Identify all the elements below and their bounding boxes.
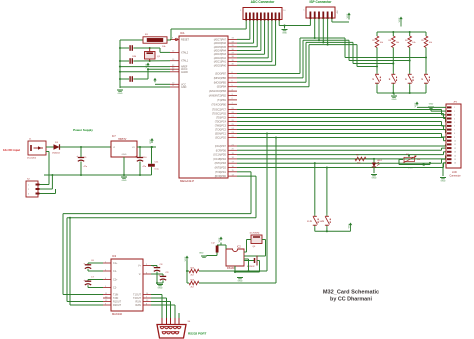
svg-text:IC7: IC7: [112, 135, 116, 138]
capacitor C6 1u: [83, 260, 103, 271]
connector X2 aux power 3-pin: [26, 178, 40, 197]
svg-text:2k2: 2k2: [191, 287, 195, 289]
svg-text:V+: V+: [138, 265, 142, 268]
svg-text:(T0/XCK)PB0: (T0/XCK)PB0: [212, 103, 227, 106]
wire INT buttons to VCC: [315, 228, 351, 232]
svg-text:JP2: JP2: [453, 102, 458, 104]
wire VCC stem to pull-ups: [186, 261, 188, 284]
svg-text:7805TV: 7805TV: [118, 138, 127, 141]
svg-text:C11: C11: [155, 162, 160, 164]
wire IC2 VCC pin: [221, 245, 226, 249]
power VCC arrow above button rail: [399, 17, 403, 27]
wire ISP pin6 to VCC: [332, 19, 349, 23]
resistor R16 2k2: [189, 279, 199, 288]
capacitor C5 47u input: [76, 147, 88, 175]
svg-text:VCC: VCC: [348, 223, 350, 228]
ground at LCD pin2: [428, 104, 434, 109]
label ADC Connector: [251, 0, 275, 4]
svg-text:C8: C8: [160, 264, 164, 266]
svg-text:LED1: LED1: [377, 160, 383, 162]
svg-text:C1-: C1-: [113, 270, 117, 273]
wire J1 sleeve down: [46, 151, 49, 153]
power VCC arrow at LCD pin1: [415, 102, 419, 108]
svg-text:12: 12: [454, 148, 456, 150]
wire battery to GND: [234, 266, 260, 273]
svg-text:(AIN0/INT2)PB2: (AIN0/INT2)PB2: [209, 95, 227, 98]
wire Q4 right to IC2: [244, 240, 266, 257]
svg-text:1: 1: [303, 10, 305, 12]
transistor-style tact switches S1-S4: [372, 72, 429, 87]
wire button VCC rail: [377, 31, 426, 33]
wire R2IN to DB9: [151, 305, 175, 318]
svg-text:IC3: IC3: [112, 254, 117, 258]
wire C8/C9 to GND: [156, 282, 163, 284]
wire D3 to IC7 input: [60, 146, 112, 148]
capacitor C9 1u at V-: [151, 272, 169, 283]
svg-text:ADC Connector: ADC Connector: [251, 0, 275, 4]
svg-text:(ADC7)PA7: (ADC7)PA7: [214, 38, 227, 41]
svg-text:(TCK)PC2: (TCK)PC2: [215, 129, 227, 132]
label Power Supply: [73, 128, 93, 132]
ground below LED1: [371, 175, 377, 180]
svg-text:GND: GND: [372, 178, 377, 180]
capacitor C2 (XTAL1): [120, 58, 170, 64]
svg-text:(MISO)PB6: (MISO)PB6: [214, 77, 227, 80]
svg-text:VCC: VCC: [219, 237, 221, 242]
svg-text:10: 10: [283, 10, 286, 12]
svg-text:C2-: C2-: [113, 287, 117, 290]
tact switch S6: [320, 214, 331, 229]
svg-text:AGND: AGND: [181, 71, 188, 74]
svg-text:(TDI)PC5: (TDI)PC5: [216, 117, 227, 120]
wire RXD PD0 loop to R1OUT: [67, 176, 256, 301]
ground left of C12: [199, 253, 207, 258]
svg-text:IC1: IC1: [180, 31, 185, 35]
svg-text:E: E: [310, 220, 312, 223]
svg-text:47u: 47u: [143, 166, 147, 168]
wire R1 to RESET pin: [167, 39, 171, 41]
ground below regulator: [121, 177, 127, 182]
svg-text:DCJ0202: DCJ0202: [27, 157, 37, 159]
svg-text:(TOSC1)PC6: (TOSC1)PC6: [212, 113, 227, 116]
wire X2 pin3 stub: [40, 189, 56, 194]
label 12v DC input: [3, 148, 20, 152]
svg-text:1: 1: [454, 107, 455, 109]
capacitor C11 100n output: [148, 147, 160, 175]
wire Q4 left to IC2: [244, 240, 251, 253]
svg-text:R2IN: R2IN: [136, 304, 142, 307]
svg-text:0.1u: 0.1u: [155, 169, 160, 171]
svg-text:R4: R4: [405, 40, 408, 42]
wire VCC pin: [155, 83, 170, 85]
svg-text:32.768kHz: 32.768kHz: [250, 233, 260, 235]
svg-text:(T1)PB1: (T1)PB1: [217, 99, 227, 102]
wire ADC pin10 to GND: [279, 21, 285, 29]
svg-text:D3: D3: [55, 142, 59, 144]
svg-text:GND: GND: [122, 180, 127, 182]
wire R15 to pullups junction: [187, 270, 189, 272]
wire pull-ups to switches: [377, 48, 426, 72]
svg-text:C1+: C1+: [113, 262, 118, 265]
capacitor C1 (XTAL2): [120, 45, 160, 51]
connector JP2 LCD 16-pin: [446, 102, 461, 178]
wire GND pin to rail: [120, 87, 170, 88]
wire IC2 SCL stub: [251, 282, 253, 284]
svg-text:10k: 10k: [412, 42, 415, 44]
svg-text:Q4: Q4: [253, 246, 257, 248]
resistor R15 2k2: [189, 267, 199, 276]
svg-text:GND: GND: [181, 86, 187, 89]
svg-text:C7: C7: [91, 277, 95, 279]
svg-text:(ADC4)PA4: (ADC4)PA4: [214, 50, 227, 53]
resistor R1 10k reset pull-up: [143, 34, 167, 48]
wire R2OUT spur: [69, 217, 103, 305]
wire power GND rail: [44, 157, 152, 176]
svg-text:13: 13: [454, 152, 456, 154]
svg-text:16: 16: [454, 163, 456, 165]
battery G1 BR2032 backup: [244, 256, 260, 273]
wire R16 to pullups junction: [187, 282, 189, 284]
svg-text:(SS)PB4: (SS)PB4: [217, 86, 227, 89]
connector SV1 ADC 10-pin header: [240, 8, 286, 21]
resistor R7 trimmer (LCD contrast): [403, 154, 420, 163]
svg-text:X4: X4: [188, 321, 191, 323]
svg-text:(ADC5)PA5: (ADC5)PA5: [214, 46, 227, 49]
ground below buttons: [391, 96, 397, 101]
wire AGND to rail: [119, 71, 170, 73]
svg-text:10: 10: [454, 141, 456, 143]
ground below DS1307: [237, 278, 243, 283]
svg-text:(SDA)PC1: (SDA)PC1: [215, 133, 227, 136]
wire INT0 drop from PD2: [326, 166, 328, 213]
svg-text:VCC: VCC: [408, 168, 413, 170]
svg-text:C12: C12: [211, 243, 216, 245]
power VCC arrow at AVCC: [146, 63, 150, 69]
svg-text:10k: 10k: [162, 46, 166, 48]
label ISP Connector: [310, 0, 333, 4]
wire R6 to LED: [366, 158, 375, 160]
power VCC arrow at I2C pull-ups: [185, 256, 189, 262]
svg-text:LCD: LCD: [452, 171, 457, 174]
svg-text:C6: C6: [91, 260, 95, 262]
svg-text:E: E: [372, 78, 374, 81]
op-amp IC3 MAX232 level shifter: [103, 254, 151, 316]
label RS232 PORT: [188, 332, 207, 336]
svg-text:R1: R1: [145, 34, 149, 36]
svg-text:GND: GND: [158, 288, 163, 290]
label by CC Dharmani: [330, 297, 372, 303]
svg-text:C2+: C2+: [113, 279, 118, 282]
wire rail to R1: [120, 39, 143, 41]
op-amp IC2 DS1307 RTC: [226, 246, 244, 271]
wire LCD GND stub bottom: [443, 163, 446, 176]
svg-text:E: E: [322, 220, 324, 223]
svg-text:R2OUT: R2OUT: [113, 304, 122, 307]
svg-text:(OC2)PD7: (OC2)PD7: [215, 145, 227, 148]
svg-text:(OC1B)PD4: (OC1B)PD4: [213, 158, 226, 161]
svg-text:GND: GND: [199, 253, 204, 255]
wire button GND rail: [377, 86, 426, 95]
svg-text:VI: VI: [113, 147, 115, 149]
svg-text:5: 5: [454, 122, 455, 124]
svg-text:X2: X2: [27, 178, 30, 180]
wire LCD pin2 to GND: [431, 108, 446, 111]
svg-text:C5: C5: [84, 157, 88, 159]
wire AVCC net: [147, 68, 170, 70]
power VCC arrow right of INT buttons: [348, 223, 352, 232]
crystal Q4 32.768kHz: [250, 233, 263, 249]
svg-text:(TDO)PC4: (TDO)PC4: [215, 121, 227, 124]
svg-text:VO: VO: [132, 147, 135, 149]
svg-text:VCC: VCC: [347, 13, 349, 18]
svg-text:16M: 16M: [132, 56, 136, 58]
svg-text:(INT1)PD3: (INT1)PD3: [215, 162, 227, 165]
svg-text:4: 4: [454, 118, 455, 120]
wire AREF to rail: [119, 66, 170, 68]
svg-text:2: 2: [28, 189, 30, 191]
svg-text:R3: R3: [389, 40, 392, 42]
svg-text:MAX232: MAX232: [112, 312, 123, 316]
resistor R6 330: [355, 155, 366, 165]
wire GND rail left of IC1: [119, 40, 121, 88]
svg-text:VCC: VCC: [146, 63, 148, 68]
wire ADC bus to PA0-PA7: [237, 21, 276, 66]
wire ISP MOSI/MISO/SCK/RST drops: [314, 19, 329, 46]
svg-text:6: 6: [454, 126, 455, 128]
capacitor C10 47u output: [135, 147, 147, 175]
wire INT1 drop from PD3: [314, 162, 316, 213]
wire trimmer wiper to bus: [408, 154, 410, 157]
svg-text:(TXD)PD1: (TXD)PD1: [215, 171, 227, 174]
connector X4 DB9 serial: [157, 318, 191, 338]
svg-text:R15: R15: [191, 267, 196, 269]
svg-text:(SCK)PB7: (SCK)PB7: [215, 73, 227, 76]
svg-text:GND: GND: [441, 181, 446, 183]
power VCC arrow at regulator output: [150, 138, 154, 144]
svg-text:V-: V-: [139, 273, 141, 276]
svg-text:VCC: VCC: [415, 102, 417, 107]
wire PB7-PB4 nets to ISP and buttons: [237, 38, 427, 87]
power VCC arrow right of ISP: [347, 13, 351, 20]
svg-text:E: E: [389, 78, 391, 81]
svg-text:10k: 10k: [429, 42, 432, 44]
svg-text:Q1: Q1: [157, 56, 161, 58]
svg-text:14: 14: [454, 155, 456, 157]
svg-text:12v DC input: 12v DC input: [3, 148, 20, 152]
svg-text:GND: GND: [429, 104, 434, 106]
svg-text:(SCL)PC0: (SCL)PC0: [215, 137, 227, 140]
svg-text:GND: GND: [118, 93, 123, 95]
svg-text:M32_Card Schematic: M32_Card Schematic: [323, 290, 379, 296]
svg-text:R2: R2: [372, 40, 375, 42]
svg-text:3: 3: [454, 115, 455, 117]
svg-text:8: 8: [454, 133, 455, 135]
svg-text:Power Supply: Power Supply: [73, 128, 93, 132]
wire X2 pin2 to GND rail: [40, 175, 53, 189]
svg-text:ISP Connector: ISP Connector: [310, 0, 333, 4]
svg-text:(RXD)PD0: (RXD)PD0: [215, 175, 227, 178]
svg-text:7: 7: [454, 129, 455, 131]
svg-text:R5: R5: [421, 40, 424, 42]
svg-text:1: 1: [28, 185, 30, 187]
wire T2OUT to DB9: [151, 298, 167, 318]
crystal Q1 16MHz: [132, 48, 161, 61]
svg-text:(ICP)PD6: (ICP)PD6: [216, 149, 227, 152]
svg-text:VCC: VCC: [399, 17, 401, 22]
connector J1 DC jack: [27, 139, 46, 160]
svg-text:GND: GND: [238, 281, 243, 283]
wire TXD PD1 loop to T1IN: [63, 172, 251, 295]
svg-text:MEGA32-P: MEGA32-P: [180, 179, 194, 183]
svg-text:2k2: 2k2: [191, 275, 195, 277]
svg-text:(ADC0)PA0: (ADC0)PA0: [214, 64, 227, 67]
wire trimmer to VCC net: [399, 160, 431, 170]
svg-text:E: E: [405, 78, 407, 81]
svg-text:C9: C9: [166, 272, 170, 274]
svg-text:RS232 PORT: RS232 PORT: [188, 332, 207, 336]
svg-text:15: 15: [454, 159, 456, 161]
svg-text:C10: C10: [143, 157, 148, 159]
svg-text:(INT0)PD2: (INT0)PD2: [215, 167, 227, 170]
svg-text:GND: GND: [282, 33, 287, 35]
svg-text:IC2: IC2: [237, 246, 241, 249]
wire GND link ADC to ISP pin1: [285, 19, 311, 26]
svg-text:by CC Dharmani: by CC Dharmani: [330, 297, 372, 303]
svg-text:R16: R16: [191, 279, 196, 281]
wire IC7 output to VCC: [137, 146, 156, 148]
svg-text:J1: J1: [29, 139, 32, 141]
svg-text:(TMS)PC3: (TMS)PC3: [215, 125, 227, 128]
diode D3 1N4004: [52, 142, 60, 155]
svg-text:2: 2: [454, 111, 455, 113]
svg-text:3: 3: [28, 194, 30, 196]
wire R1IN to DB9: [151, 302, 171, 319]
svg-text:(TOSC2)PC7: (TOSC2)PC7: [212, 109, 227, 112]
svg-text:ISP: ISP: [336, 11, 338, 15]
svg-text:GND: GND: [392, 99, 397, 101]
svg-text:10k: 10k: [417, 159, 420, 161]
svg-text:10k: 10k: [396, 42, 399, 44]
ground below ADC connector: [282, 30, 288, 35]
svg-text:(ADC1)PA1: (ADC1)PA1: [214, 61, 227, 64]
svg-text:Connector: Connector: [450, 175, 461, 178]
svg-text:10k: 10k: [380, 42, 383, 44]
resistor R2-R5 10k pull-ups: [372, 32, 432, 48]
svg-text:(OC1A)PD5: (OC1A)PD5: [213, 154, 226, 157]
label M32_Card Schematic: [323, 290, 379, 296]
wire RESET to ADC pin1 (x171 riser, y29 run): [171, 21, 246, 41]
wire LCD pin1 to VCC: [417, 106, 446, 108]
svg-text:VCC: VCC: [150, 139, 152, 144]
wire J1 to D3: [46, 146, 54, 148]
wire SCL net: [199, 136, 277, 283]
capacitor C12 100n at DS1307: [207, 243, 222, 256]
wire X2 pin1 to +12V: [40, 152, 50, 185]
wire IC2 SDA stub: [244, 259, 250, 272]
connector SV2 ISP 6-pin header: [303, 7, 337, 19]
svg-text:11: 11: [454, 144, 456, 146]
capacitor C3 AVCC decoupling: [120, 69, 148, 82]
ground below left rail: [117, 90, 123, 95]
svg-text:(ADC6)PA6: (ADC6)PA6: [214, 42, 227, 45]
svg-text:RESET: RESET: [181, 38, 190, 41]
svg-text:1N4004: 1N4004: [52, 153, 60, 155]
svg-text:GND: GND: [122, 154, 127, 156]
diode LED1 power indicator: [372, 159, 383, 173]
svg-text:E: E: [421, 78, 423, 81]
wire SDA net: [199, 132, 268, 271]
ground below LCD connector: [440, 178, 446, 183]
svg-text:XTAL2: XTAL2: [181, 51, 189, 54]
capacitor C7 1u: [83, 277, 103, 288]
op-amp IC7 7805TV voltage regulator: [111, 135, 137, 157]
svg-text:(ADC3)PA3: (ADC3)PA3: [214, 53, 227, 56]
svg-text:1: 1: [240, 10, 242, 12]
tact switch S5: [307, 214, 318, 229]
svg-text:(ADC2)PA2: (ADC2)PA2: [214, 57, 227, 60]
wire PC/PD bus to LCD connector: [237, 110, 446, 168]
capacitor C8 1u at V+: [151, 264, 163, 283]
svg-text:9: 9: [454, 137, 455, 139]
wire DB9 pin5 stub: [178, 313, 180, 318]
svg-text:XTAL1: XTAL1: [181, 60, 189, 63]
svg-text:(AIN1/OC0)PB3: (AIN1/OC0)PB3: [209, 90, 227, 93]
op-amp IC1 ATmega32 (MEGA32-P) microcontroller: [170, 31, 237, 183]
power VCC arrow at VCC pin: [153, 78, 156, 83]
power VCC arrow at DS1307: [219, 237, 223, 243]
svg-text:(MOSI)PB5: (MOSI)PB5: [214, 81, 227, 84]
wire XTAL2 net: [149, 47, 170, 52]
wire T1OUT to DB9: [151, 295, 162, 319]
ground below C8 C9: [157, 285, 163, 290]
svg-text:47u: 47u: [84, 166, 88, 168]
